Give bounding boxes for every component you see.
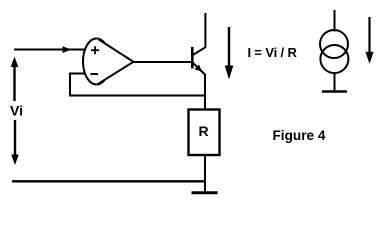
svg-text:I = Vi / R: I = Vi / R <box>248 45 298 60</box>
transistor Q1 collector vertical wire <box>204 13 206 48</box>
transistor Q1 base bar <box>191 47 194 69</box>
op-amp U1 <box>83 39 135 86</box>
wire resistor bottom to ground <box>204 155 206 192</box>
current I arrow <box>225 27 234 80</box>
op-amp output wire to base <box>134 61 193 63</box>
svg-text:R: R <box>199 123 209 139</box>
wire input from Vi to op-amp + <box>14 49 85 51</box>
svg-text:Vi: Vi <box>10 103 23 119</box>
bottom rail wire <box>12 180 206 182</box>
ground bar under resistor <box>192 191 218 194</box>
op-amp plus input sign <box>91 46 99 54</box>
feedback wire from emitter to op-amp minus <box>70 74 205 96</box>
transistor Q1 emitter arrowhead <box>195 65 202 72</box>
transistor Q1 emitter diagonal <box>193 63 205 75</box>
arrowhead on input wire <box>63 46 72 53</box>
transistor Q1 collector diagonal <box>193 47 206 55</box>
arrow beside current source <box>365 17 373 64</box>
current source top lead <box>334 10 336 32</box>
op-amp minus input sign <box>91 73 99 75</box>
current source bottom circle <box>320 45 348 73</box>
current source bottom lead <box>334 73 336 92</box>
svg-text:Figure 4: Figure 4 <box>273 128 326 143</box>
resistor R box <box>189 110 220 156</box>
current source ground bar <box>322 90 347 93</box>
down arrow at Vi <box>11 120 19 165</box>
current source top circle <box>320 30 348 58</box>
emitter vertical wire to resistor <box>204 74 206 110</box>
up arrow at Vi <box>11 57 19 102</box>
